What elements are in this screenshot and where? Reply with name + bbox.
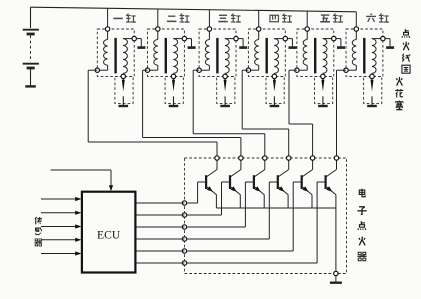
svg-text:ECU: ECU: [97, 229, 121, 242]
